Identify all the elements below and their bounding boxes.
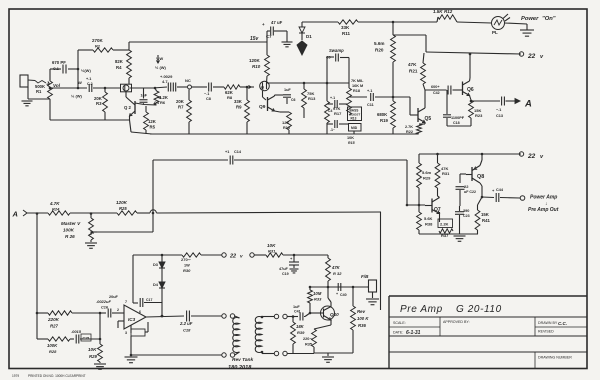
svg-text:R2: R2	[95, 44, 101, 49]
svg-text:REVISED: REVISED	[538, 330, 554, 334]
svg-text:120K: 120K	[116, 200, 128, 205]
svg-text:1.5K: 1.5K	[433, 9, 443, 14]
svg-text:C13: C13	[496, 114, 503, 118]
svg-text:180 2018: 180 2018	[228, 365, 252, 371]
svg-text:D3: D3	[153, 263, 158, 267]
svg-text:APPROVED BY:: APPROVED BY:	[443, 320, 470, 324]
svg-text:Pre Amp Out: Pre Amp Out	[528, 207, 559, 213]
svg-text:NC: NC	[185, 78, 191, 83]
svg-text:Q: Q	[261, 85, 264, 90]
svg-text:R36: R36	[358, 323, 366, 328]
svg-text:33K: 33K	[341, 25, 350, 30]
svg-text:+1: +1	[225, 150, 229, 154]
svg-text:C6: C6	[291, 98, 296, 102]
svg-text:Q 2: Q 2	[124, 105, 132, 110]
svg-text:½ (W): ½ (W)	[71, 94, 83, 99]
svg-text:10K: 10K	[347, 136, 354, 140]
svg-text:+.1: +.1	[86, 77, 91, 81]
svg-text:.0015: .0015	[71, 329, 82, 334]
svg-text:A: A	[524, 99, 532, 110]
svg-text:R10: R10	[252, 64, 261, 69]
svg-text:390: 390	[463, 209, 469, 213]
svg-text:½(W): ½(W)	[81, 68, 91, 73]
svg-text:82K: 82K	[115, 59, 124, 64]
svg-text:F/B: F/B	[361, 274, 369, 279]
svg-text:Q5: Q5	[425, 116, 432, 122]
svg-text:+.1: +.1	[367, 89, 372, 93]
svg-text:R5: R5	[150, 125, 156, 130]
svg-text:R 26: R 26	[65, 234, 75, 239]
svg-text:100K: 100K	[47, 343, 58, 348]
svg-text:−.1: −.1	[204, 92, 209, 96]
svg-text:22: 22	[527, 53, 536, 60]
svg-text:Power: Power	[521, 16, 539, 22]
svg-text:R1: R1	[36, 89, 42, 94]
svg-text:C18: C18	[183, 328, 191, 333]
svg-text:100K: 100K	[63, 228, 75, 233]
svg-text:220∼: 220∼	[303, 337, 313, 341]
svg-text:2.7K: 2.7K	[405, 125, 413, 129]
svg-text:.1⁻: .1⁻	[330, 128, 335, 132]
svg-text:R7: R7	[178, 105, 184, 110]
svg-text:2.2 uF: 2.2 uF	[179, 321, 193, 326]
svg-text:PRINTED ON NO. 1000H CLEARPRIN: PRINTED ON NO. 1000H CLEARPRINT	[28, 374, 86, 378]
svg-text:R23: R23	[475, 113, 483, 118]
svg-text:C19: C19	[282, 272, 289, 276]
svg-text:R18: R18	[353, 89, 360, 93]
svg-text:R8: R8	[227, 95, 233, 100]
svg-text:R11: R11	[342, 31, 351, 36]
svg-text:10K: 10K	[267, 243, 276, 248]
svg-text:22: 22	[527, 153, 536, 160]
svg-text:R22: R22	[406, 130, 413, 134]
svg-text:2: 2	[117, 308, 119, 312]
svg-text:47 uF: 47 uF	[271, 20, 283, 25]
svg-text:270∼: 270∼	[181, 257, 192, 262]
svg-text:7K MIL: 7K MIL	[351, 79, 364, 83]
svg-text:47K: 47K	[408, 62, 417, 67]
svg-text:4.7: 4.7	[162, 79, 168, 84]
svg-text:270K: 270K	[92, 38, 104, 43]
svg-text:4.7K: 4.7K	[49, 201, 60, 206]
svg-text:1uF: 1uF	[293, 305, 300, 309]
svg-text:12K: 12K	[282, 120, 289, 125]
svg-text:R35: R35	[305, 343, 312, 347]
svg-text:uF C22: uF C22	[464, 190, 476, 194]
svg-text:C11: C11	[367, 103, 374, 107]
svg-text:5.6K: 5.6K	[424, 216, 433, 221]
svg-text:PL: PL	[492, 30, 498, 35]
svg-text:15K: 15K	[481, 212, 490, 217]
svg-text:½W: ½W	[156, 56, 163, 61]
svg-text:R38: R38	[425, 222, 433, 227]
svg-text:R29: R29	[89, 354, 97, 359]
svg-text:DRAWING NUMBER: DRAWING NUMBER	[538, 356, 572, 360]
svg-text:R3: R3	[96, 101, 102, 106]
svg-text:R24: R24	[52, 207, 60, 212]
svg-text:R9: R9	[236, 105, 242, 110]
svg-text:Swamp: Swamp	[329, 48, 344, 53]
svg-text:Rev: Rev	[357, 309, 366, 314]
svg-text:C9: C9	[326, 56, 331, 60]
svg-text:10M: 10M	[313, 291, 322, 296]
svg-text:R13: R13	[308, 96, 316, 101]
svg-text:R31: R31	[442, 171, 450, 176]
svg-text:18K: 18K	[296, 324, 305, 329]
svg-text:7: 7	[125, 300, 127, 304]
svg-text:R31: R31	[268, 249, 276, 254]
svg-text:33K: 33K	[234, 99, 243, 104]
svg-text:A: A	[12, 210, 18, 219]
svg-text:R19: R19	[380, 118, 388, 123]
svg-text:5.6m: 5.6m	[422, 170, 432, 175]
svg-text:5.6m: 5.6m	[374, 41, 384, 46]
svg-text:R17: R17	[334, 111, 342, 116]
svg-text:C.C.: C.C.	[558, 321, 567, 326]
svg-text:R37: R37	[441, 233, 449, 238]
svg-text:670 PF: 670 PF	[52, 60, 66, 65]
svg-text:"On": "On"	[542, 16, 556, 22]
svg-text:R12: R12	[444, 9, 453, 14]
svg-text:DATE:: DATE:	[393, 331, 403, 335]
svg-text:+1: +1	[157, 96, 161, 100]
svg-text:1W: 1W	[184, 264, 190, 268]
svg-text:R4: R4	[116, 65, 122, 70]
svg-text:W: W	[78, 80, 82, 85]
svg-text:C17: C17	[146, 298, 152, 302]
svg-text:C41: C41	[294, 310, 301, 314]
svg-text:C.2: C.2	[87, 82, 93, 86]
svg-text:R30: R30	[183, 268, 191, 273]
svg-text:Master V: Master V	[61, 221, 81, 226]
svg-text:3: 3	[125, 331, 127, 335]
svg-text:+: +	[262, 22, 265, 27]
svg-text:Q8: Q8	[477, 174, 484, 180]
svg-text:R41: R41	[482, 218, 490, 223]
svg-text:DRAWN BY: DRAWN BY	[538, 321, 558, 325]
svg-text:MID: MID	[351, 126, 358, 130]
svg-text:R25: R25	[119, 206, 127, 211]
svg-text:20uF: 20uF	[109, 295, 119, 299]
svg-text:6: 6	[139, 310, 141, 314]
svg-text:D1: D1	[306, 34, 312, 39]
svg-text:22: 22	[229, 254, 236, 260]
svg-text:1979: 1979	[12, 374, 19, 378]
svg-text:C4: C4	[328, 109, 332, 113]
svg-text:C7: C7	[266, 34, 272, 39]
svg-text:R39: R39	[297, 330, 305, 335]
svg-text:R20: R20	[375, 48, 384, 53]
svg-text:100 K: 100 K	[357, 316, 369, 321]
svg-text:R 32: R 32	[333, 271, 342, 276]
svg-text:Q9: Q9	[259, 104, 266, 110]
svg-text:12K: 12K	[148, 119, 157, 124]
svg-text:C18: C18	[453, 121, 460, 125]
svg-text:15v: 15v	[250, 36, 260, 42]
svg-text:10K: 10K	[88, 347, 97, 352]
svg-text:22: 22	[464, 184, 469, 189]
svg-text:½ (W): ½ (W)	[155, 65, 167, 70]
svg-text:R21: R21	[409, 69, 418, 74]
svg-text:20K: 20K	[176, 99, 185, 104]
svg-text:−.1: −.1	[496, 108, 501, 112]
svg-text:6-1-31: 6-1-31	[406, 330, 421, 336]
svg-text:R13: R13	[351, 117, 357, 121]
svg-text:680K: 680K	[377, 112, 388, 117]
svg-text:47K: 47K	[331, 265, 341, 270]
svg-text:Q6: Q6	[467, 87, 474, 93]
svg-text:SCALE:: SCALE:	[393, 321, 406, 325]
svg-text:Q10: Q10	[330, 312, 339, 317]
svg-text:+.1: +.1	[330, 96, 335, 100]
svg-text:IC3: IC3	[128, 317, 136, 322]
svg-text:220K: 220K	[47, 317, 60, 322]
svg-text:G 20-110: G 20-110	[456, 304, 502, 315]
svg-text:C16: C16	[101, 306, 109, 310]
svg-text:.0022uF: .0022uF	[96, 299, 111, 304]
svg-text:C14: C14	[234, 150, 242, 154]
svg-text:+: +	[336, 292, 338, 296]
svg-text:Pre Amp: Pre Amp	[400, 304, 443, 315]
svg-text:C40: C40	[340, 293, 347, 297]
svg-text:Power Amp: Power Amp	[530, 195, 557, 201]
svg-text:Vol: Vol	[53, 83, 61, 88]
svg-text:R29: R29	[423, 176, 431, 181]
svg-text:C44: C44	[496, 188, 504, 192]
svg-text:1uF: 1uF	[284, 88, 291, 92]
svg-text:Rev Tank: Rev Tank	[232, 357, 253, 363]
svg-text:R15: R15	[348, 141, 356, 145]
svg-text:120K: 120K	[249, 58, 261, 63]
svg-text:R6: R6	[160, 100, 166, 105]
svg-text:16K M: 16K M	[352, 84, 363, 88]
svg-text:C42: C42	[433, 91, 440, 95]
svg-text:C8: C8	[206, 97, 211, 101]
svg-text:600+: 600+	[431, 85, 440, 89]
svg-text:R28: R28	[49, 349, 57, 354]
svg-text:C.1: C.1	[53, 67, 59, 71]
svg-text:47uF: 47uF	[279, 267, 289, 271]
svg-text:v: v	[240, 254, 243, 259]
svg-text:1uF: 1uF	[141, 94, 148, 98]
svg-text:C23: C23	[463, 214, 470, 218]
svg-text:2.2K: 2.2K	[440, 222, 449, 227]
svg-text:R27: R27	[50, 324, 58, 329]
svg-text:R15: R15	[283, 126, 290, 130]
svg-text:1100PF: 1100PF	[451, 116, 465, 120]
svg-text:R33: R33	[314, 297, 322, 302]
